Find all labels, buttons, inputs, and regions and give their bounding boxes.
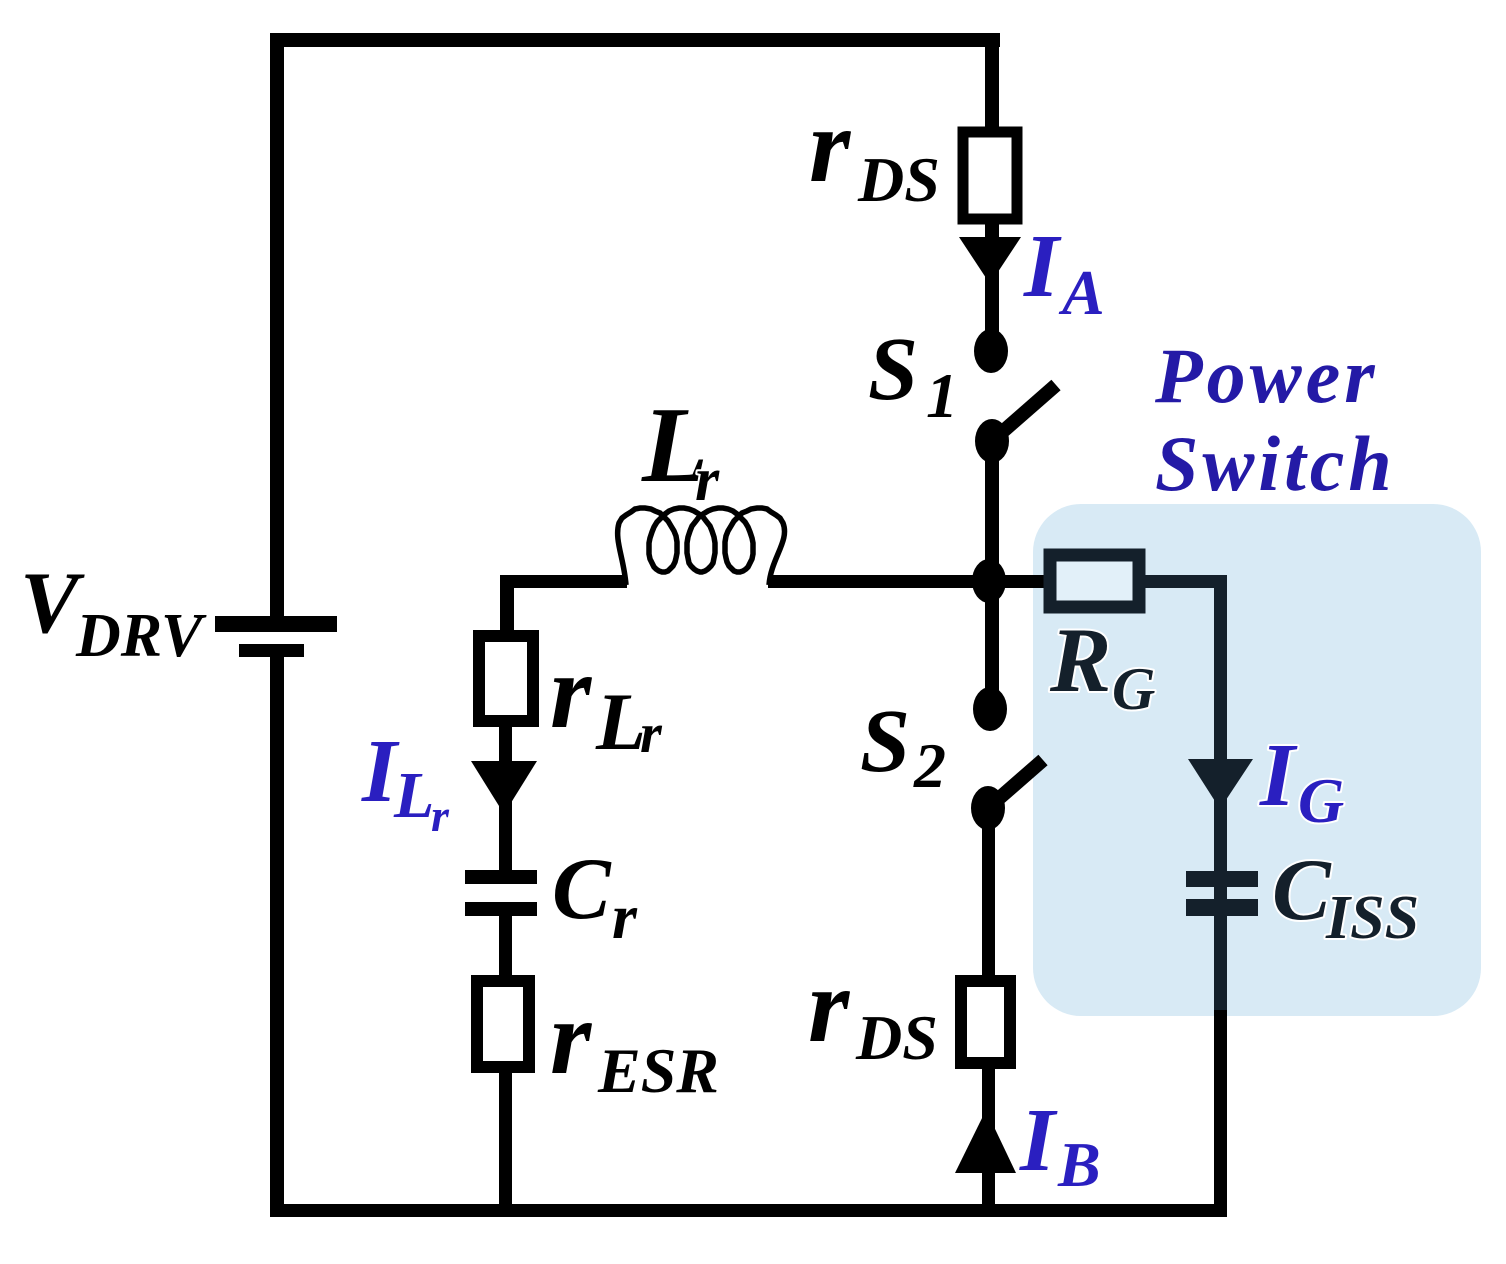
svg-text:r: r [431,790,450,841]
power switch highlight box [1033,504,1481,1016]
svg-text:Power: Power [1154,332,1379,419]
battery V_DRV bottom plate [239,644,304,657]
svg-text:r: r [808,947,851,1064]
svg-text:A: A [1058,257,1105,328]
svg-text:G: G [1298,765,1344,836]
label r_DS (top) [809,87,940,215]
svg-text:ISS: ISS [1325,884,1419,952]
svg-text:DS: DS [855,1002,938,1073]
svg-text:r: r [640,703,663,765]
label C_ISS [1272,842,1419,952]
svg-text:r: r [550,979,593,1096]
switch S2 bottom contact [971,786,1005,830]
wire top horizontal [270,33,1000,47]
svg-text:r: r [550,633,593,750]
wire junction to R_G [996,575,1044,588]
svg-text:r: r [612,881,638,952]
svg-text:r: r [809,87,852,204]
label r_DS (bottom) [808,947,938,1073]
current arrow I_G [1188,759,1253,809]
label Power Switch [1154,332,1396,507]
resistor r_DS (top) [963,132,1017,219]
svg-text:DRV: DRV [75,602,207,670]
switch S1 bottom contact [975,419,1009,463]
svg-text:I: I [1023,217,1062,316]
capacitor C_ISS bottom plate [1186,899,1258,916]
label L_r [641,386,720,514]
label S2 [860,692,946,801]
resistor r_ESR [477,981,529,1067]
label I_Lr [361,722,450,841]
svg-text:C: C [552,841,612,938]
wire bottom horizontal [270,1204,1227,1217]
current arrow I_B (up) [955,1110,1016,1173]
capacitor C_r bottom plate [465,902,537,916]
wire mid-left stub down [500,575,514,635]
wire S1 to S2 vertical [985,450,999,700]
svg-text:S: S [860,692,910,791]
current arrow I_A [959,237,1021,284]
wire below r_ESR [499,1067,512,1210]
svg-text:G: G [1112,656,1155,722]
label I_A [1023,217,1105,328]
svg-text:L: L [595,676,646,767]
resistor R_G [1050,555,1139,607]
inductor L_r coil [618,508,785,585]
label I_G [1259,726,1344,836]
wire below r_Lr [499,721,512,870]
svg-text:S: S [868,320,918,419]
label S1 [868,320,958,431]
svg-text:I: I [1019,1091,1058,1190]
wire right branch vertical lower [1214,1010,1227,1217]
capacitor C_r top plate [465,870,537,884]
label C_r [552,841,638,952]
resistor r_DS (bottom) [961,981,1010,1063]
label I_B [1019,1091,1101,1200]
svg-text:L: L [393,759,434,832]
svg-text:C: C [1272,842,1332,939]
switch S2 top contact [973,687,1007,731]
label r_ESR [550,979,719,1106]
label R_G [1049,609,1155,722]
battery V_DRV top plate [215,616,337,632]
wire R_G to right corner [1145,575,1227,588]
node junction dot [972,559,1006,603]
wire left rail lower [270,657,284,1217]
wire below r_DS top [985,224,999,332]
wire below C_r [499,916,512,980]
wire below r_DS bottom [982,1063,995,1210]
wire mid horizontal right of coil [768,575,1040,588]
svg-text:DS: DS [857,144,940,215]
svg-text:B: B [1057,1129,1101,1200]
svg-text:Switch: Switch [1155,420,1396,507]
wire mid horizontal left of coil [502,575,627,588]
switch S1 blade [992,385,1056,441]
resistor r_Lr [479,636,533,721]
wire right branch top vertical [985,33,999,129]
label V_DRV [20,555,207,670]
svg-text:R: R [1049,609,1111,711]
label r_Lr [550,633,663,767]
capacitor C_ISS top plate [1186,871,1258,887]
svg-text:2: 2 [913,730,946,801]
svg-text:I: I [1259,726,1298,825]
switch S2 blade [988,760,1043,808]
wire S2 to r_DS bottom [982,818,995,978]
wire left rail upper [270,33,284,618]
svg-text:ESR: ESR [597,1035,719,1106]
svg-text:r: r [695,446,720,514]
switch S1 top contact [974,329,1008,373]
current arrow I_Lr [471,761,537,814]
svg-text:1: 1 [926,360,958,431]
wire right branch vertical [1214,575,1227,1016]
